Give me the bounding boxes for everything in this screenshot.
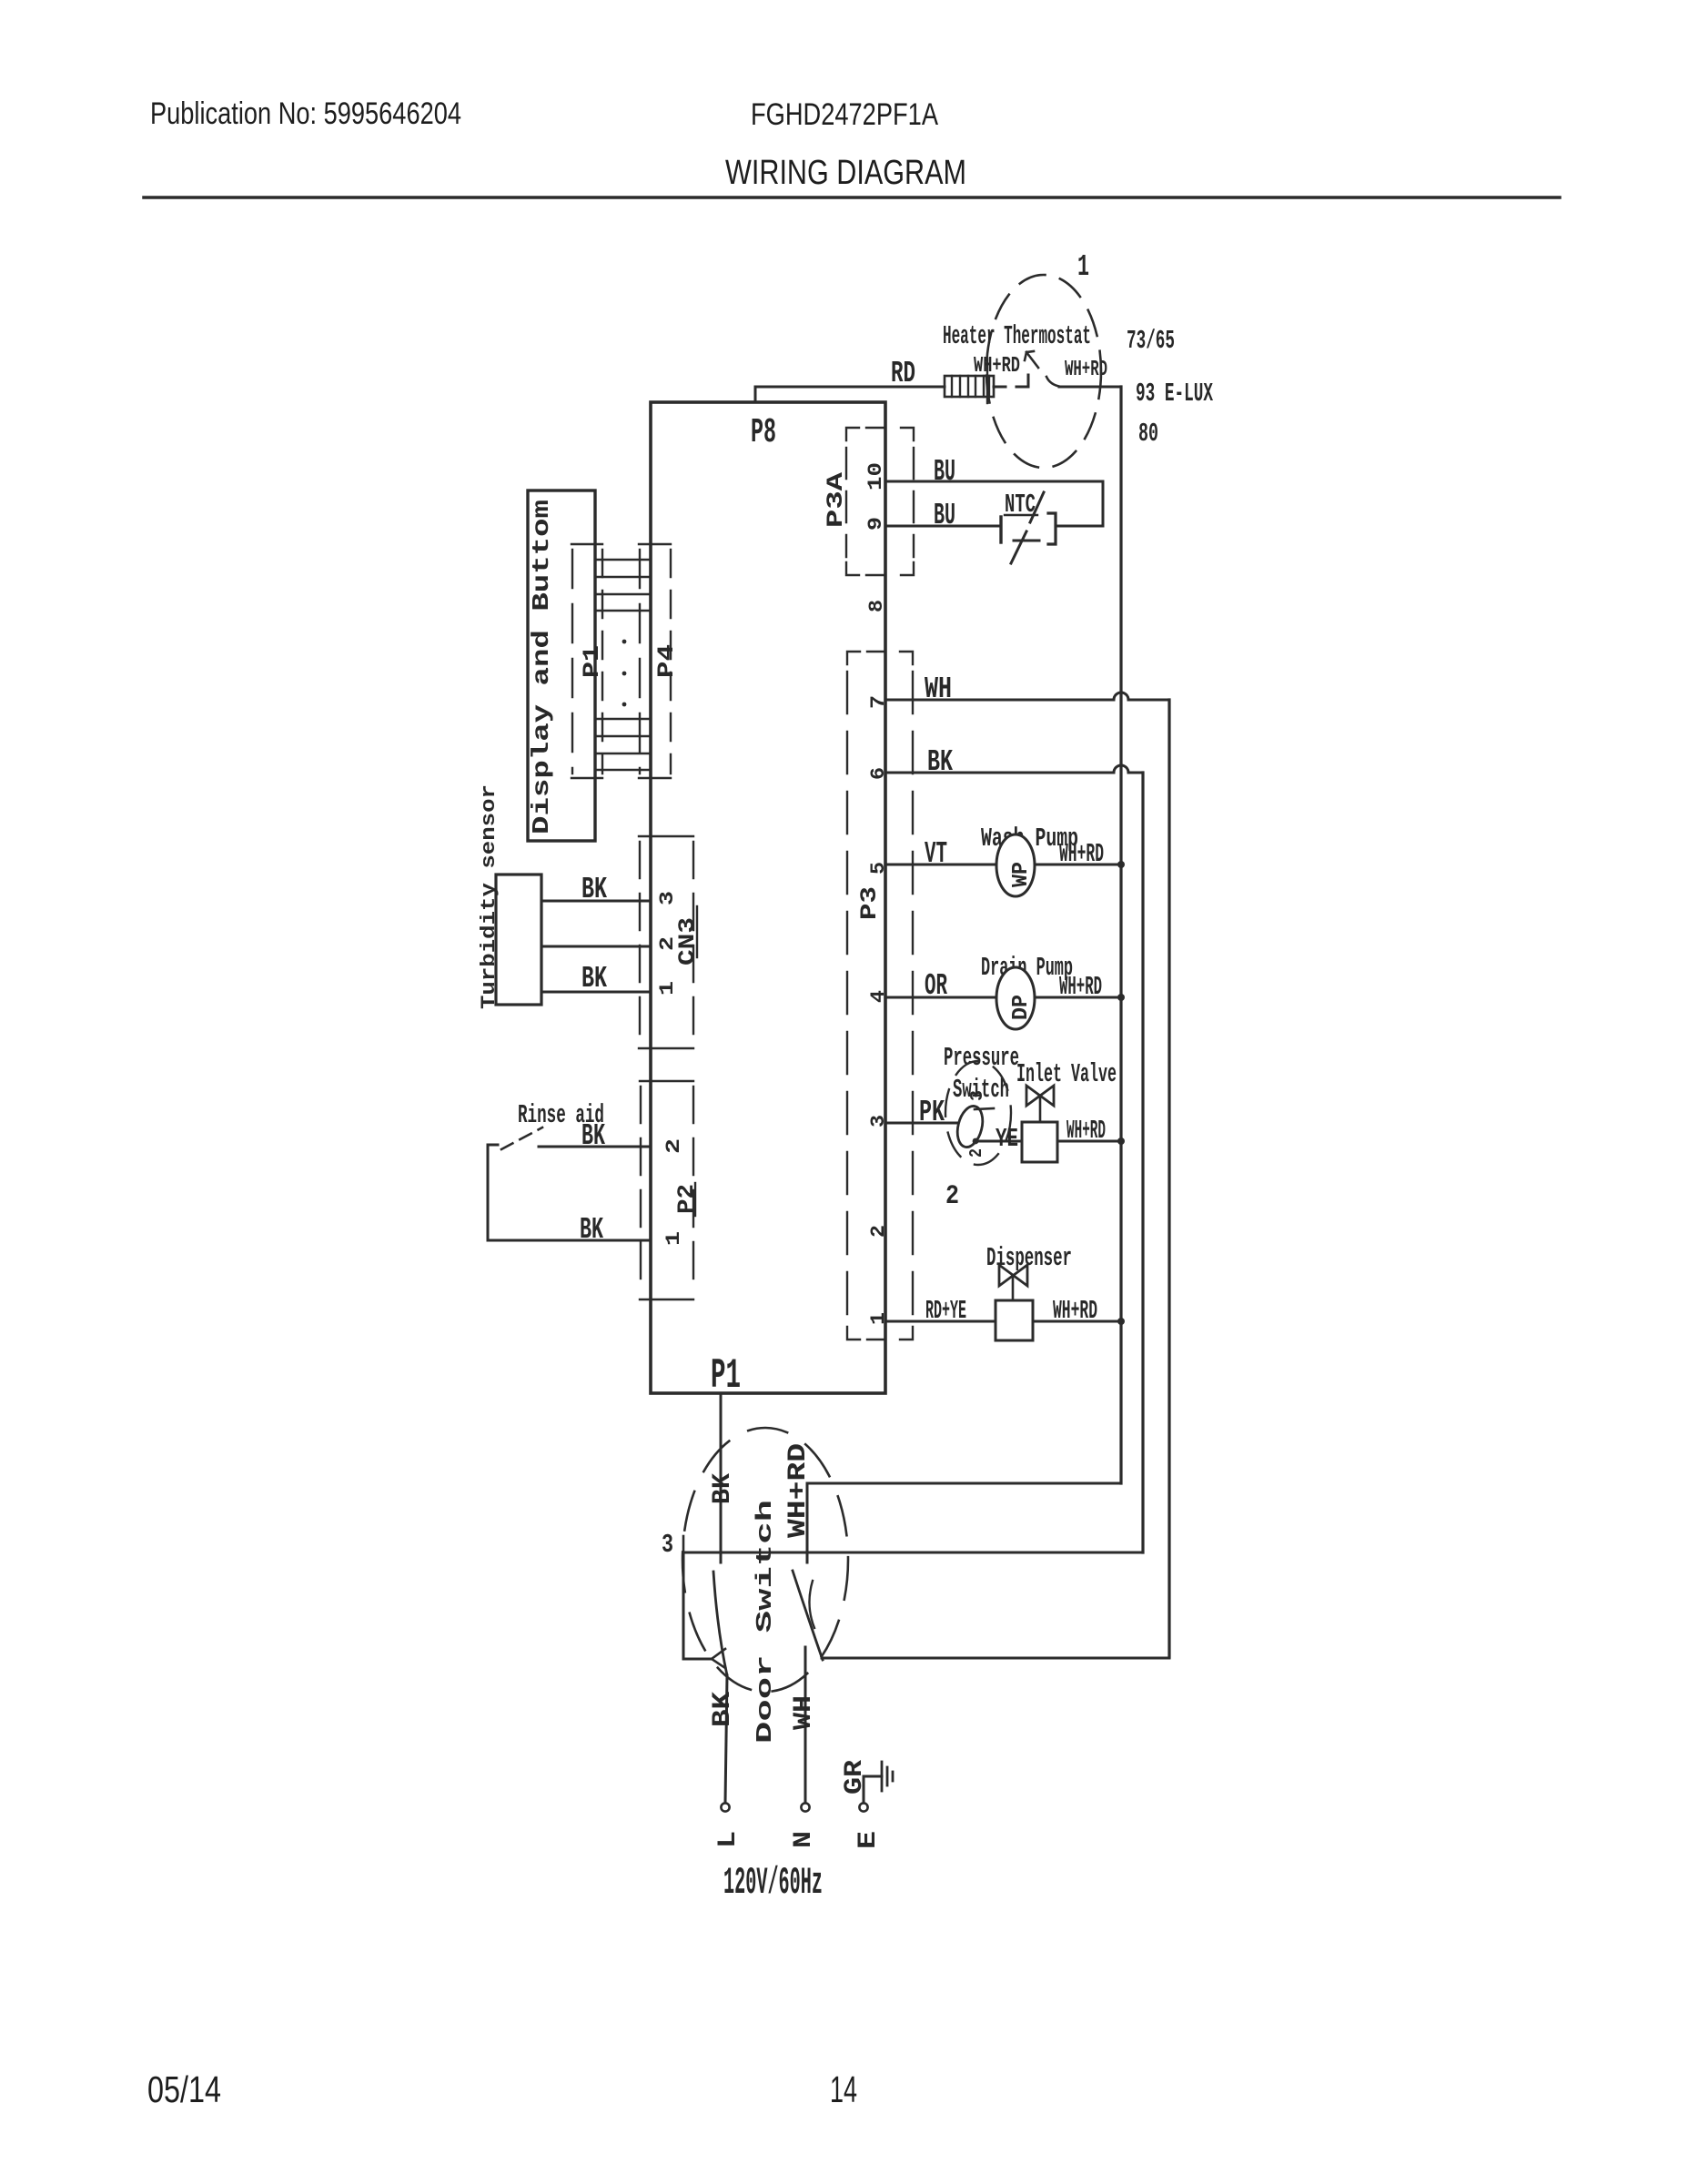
svg-text:Door Switch: Door Switch <box>753 1500 778 1744</box>
svg-text:P3: P3 <box>856 886 883 920</box>
pressure switch dashed circle <box>945 1061 1011 1165</box>
svg-text:2: 2 <box>966 1148 986 1158</box>
svg-text:3: 3 <box>967 1090 987 1101</box>
wash pump motor WP <box>996 834 1035 896</box>
svg-text:WH+RD: WH+RD <box>974 354 1020 379</box>
inlet valve bowtie symbol <box>1026 1086 1054 1106</box>
wire GR ground stub <box>864 1776 882 1803</box>
heater terminal tick <box>986 359 988 403</box>
pressure switch contact ellipse <box>954 1104 986 1150</box>
ribbon wire 7 display to board <box>595 753 651 755</box>
wire BK from board P1 down <box>720 1393 723 1562</box>
svg-text:WH+RD: WH+RD <box>1066 1116 1106 1146</box>
wire RD riser from board top <box>755 387 945 402</box>
svg-text:P4: P4 <box>653 644 680 678</box>
svg-text:BU: BU <box>934 499 955 532</box>
wire PK pin3 <box>885 1122 959 1125</box>
svg-text:WIRING DIAGRAM: WIRING DIAGRAM <box>725 154 966 192</box>
P2 underline <box>694 1183 696 1216</box>
main control board outline <box>651 402 885 1393</box>
svg-text:GR: GR <box>841 1760 869 1795</box>
middle rail BK <box>1141 773 1144 1552</box>
ribbon wire 3 display to board <box>595 593 651 596</box>
svg-text:BK: BK <box>581 873 607 906</box>
P1 pin tick <box>682 1536 685 1558</box>
dispenser coil box <box>996 1300 1033 1340</box>
svg-text:1: 1 <box>867 1312 890 1325</box>
rinse aid switch lever dashes <box>501 1127 542 1149</box>
outer rail WH <box>1167 700 1170 1657</box>
svg-text:1: 1 <box>656 981 679 996</box>
svg-text:BK: BK <box>581 962 607 996</box>
svg-text:VT: VT <box>925 837 947 871</box>
door switch left contact arrow <box>712 1649 725 1668</box>
wire WH pin7 with jump over inner rail <box>885 693 1169 700</box>
svg-text:WH+RD: WH+RD <box>1059 839 1104 869</box>
turbidity sensor box <box>496 875 541 1005</box>
door switch left bracket path <box>683 1552 712 1659</box>
dispenser bowtie symbol <box>999 1265 1027 1286</box>
svg-text:2: 2 <box>662 1138 685 1154</box>
svg-text:P1: P1 <box>579 645 605 678</box>
wire BU pin10 <box>885 480 1103 483</box>
svg-text:WH: WH <box>925 672 952 706</box>
svg-text:WH+RD: WH+RD <box>1053 1296 1097 1326</box>
connector P4 dashed outline <box>639 544 671 778</box>
wire VT pin5 <box>885 864 1121 866</box>
drain pump motor DP <box>996 967 1035 1029</box>
NTC middle dash <box>1014 540 1039 542</box>
wire door switch node line <box>683 1552 1143 1554</box>
svg-text:BK: BK <box>580 1213 603 1247</box>
svg-text:10: 10 <box>864 462 887 490</box>
ribbon wire 4 display to board <box>595 610 651 612</box>
svg-text:BK: BK <box>709 1692 737 1727</box>
ground symbol bars <box>882 1762 893 1791</box>
svg-text:3: 3 <box>867 1115 890 1127</box>
ribbon wire 6 display to board <box>595 735 651 738</box>
svg-text:2: 2 <box>945 1181 959 1212</box>
pressure switch lever <box>975 1108 994 1109</box>
svg-text:P1: P1 <box>711 1352 741 1400</box>
ribbon continuation dots <box>622 640 627 707</box>
svg-text:120V/60Hz: 120V/60Hz <box>723 1861 823 1905</box>
rinse aid return wire to P2 pin1 <box>488 1145 651 1240</box>
wire OR pin4 <box>885 996 1121 999</box>
svg-text:N: N <box>790 1831 818 1848</box>
door switch right contact arc <box>809 1581 814 1628</box>
svg-text:PK: PK <box>919 1096 945 1129</box>
svg-text:2: 2 <box>867 1225 890 1238</box>
dispenser stem <box>1012 1276 1015 1300</box>
svg-text:DP: DP <box>1009 995 1034 1020</box>
NTC right bracket <box>1048 513 1056 544</box>
junction dispenser to inner rail <box>1117 1318 1125 1325</box>
wire BK pin6 with jump over inner rail <box>885 765 1143 773</box>
svg-text:14: 14 <box>830 2068 857 2110</box>
inlet valve coil box <box>1022 1122 1057 1162</box>
connector P1 dashed outline (display side) <box>571 544 602 778</box>
wire WH switch to outer rail <box>822 1657 1169 1660</box>
connector P3 dashed outline <box>847 652 913 1340</box>
svg-text:WH: WH <box>790 1695 818 1730</box>
terminal E circle <box>859 1803 867 1811</box>
NTC strike diagonal lower <box>1011 531 1026 563</box>
junction wash pump to inner rail <box>1117 861 1125 868</box>
svg-text:RD: RD <box>891 357 915 390</box>
svg-text:80: 80 <box>1138 419 1158 449</box>
wire BK rinse aid to P2 pin2 <box>539 1146 651 1148</box>
svg-text:93 E-LUX: 93 E-LUX <box>1136 379 1213 409</box>
svg-text:Publication No: 5995646204: Publication No: 5995646204 <box>150 96 461 131</box>
svg-text:WH+RD: WH+RD <box>1059 972 1102 1002</box>
junction inlet valve to inner rail <box>1117 1137 1125 1145</box>
svg-text:BU: BU <box>934 455 955 489</box>
door switch left blade <box>713 1572 727 1675</box>
connector P3A dashed outline <box>846 428 914 575</box>
svg-text:Pressure: Pressure <box>944 1043 1019 1073</box>
terminal L circle <box>721 1803 729 1811</box>
wire WH to terminal N <box>804 1647 807 1803</box>
wire YE to inlet valve <box>975 1140 1022 1143</box>
wire RD+YE pin1 <box>885 1320 996 1323</box>
svg-text:YE: YE <box>996 1124 1018 1154</box>
svg-text:2: 2 <box>656 936 679 951</box>
svg-text:7: 7 <box>867 695 890 709</box>
svg-text:BK: BK <box>581 1119 605 1153</box>
svg-text:WP: WP <box>1009 862 1034 887</box>
svg-text:05/14: 05/14 <box>147 2068 221 2110</box>
NTC strike diagonal upper <box>1030 492 1044 522</box>
svg-text:FGHD2472PF1A: FGHD2472PF1A <box>751 97 938 132</box>
svg-text:3: 3 <box>656 891 679 905</box>
svg-text:8: 8 <box>865 600 888 612</box>
wire inlet valve to inner rail WH+RD <box>1057 1140 1121 1143</box>
inlet valve stem <box>1039 1096 1042 1122</box>
svg-text:Display and Buttom: Display and Buttom <box>528 500 555 834</box>
thermostat fixed contact <box>1016 375 1028 387</box>
title underline rule <box>144 196 1560 199</box>
thermostat right contact curve <box>1046 377 1061 387</box>
junction drain pump to inner rail <box>1117 994 1125 1001</box>
svg-text:9: 9 <box>864 517 887 531</box>
door switch right blade <box>793 1571 823 1660</box>
wire resistor to thermostat <box>994 386 1006 389</box>
svg-text:3: 3 <box>662 1530 673 1560</box>
svg-text:OR: OR <box>925 969 947 1003</box>
svg-text:Heater Thermostat: Heater Thermostat <box>943 321 1091 351</box>
wire thermostat to right rail <box>1059 386 1120 389</box>
svg-text:RD+YE: RD+YE <box>925 1296 966 1326</box>
ribbon wire 2 display to board <box>595 576 651 579</box>
wire WH+RD branch riser <box>807 1483 1121 1562</box>
wire BK to terminal L <box>725 1675 727 1803</box>
connector CN3 dashed outline <box>639 836 693 1048</box>
svg-text:P3A: P3A <box>823 472 849 528</box>
connector P2 dashed outline <box>640 1081 693 1299</box>
svg-text:1: 1 <box>1077 250 1089 284</box>
CN3 underline <box>696 906 698 957</box>
svg-text:Inlet Valve: Inlet Valve <box>1016 1059 1117 1089</box>
heater resistor element <box>945 376 994 397</box>
ribbon wire 8 display to board <box>595 769 651 772</box>
terminal N circle <box>801 1803 809 1811</box>
display and button board box <box>528 490 595 841</box>
wire BK turbidity pin1 <box>541 991 651 994</box>
ribbon wire 1 display to board <box>595 559 651 561</box>
heater thermostat dashed enclosure <box>986 275 1101 468</box>
wire BU pin9 <box>885 525 1001 528</box>
junction pressure switch YE <box>973 1138 979 1145</box>
svg-text:BK: BK <box>709 1473 737 1504</box>
NTC underline <box>1005 514 1037 516</box>
svg-text:Turbidity sensor: Turbidity sensor <box>478 784 500 1009</box>
svg-text:E: E <box>854 1831 883 1849</box>
svg-text:L: L <box>714 1831 743 1848</box>
wire dispenser to inner rail WH+RD <box>1033 1320 1121 1323</box>
wire BK turbidity pin3 <box>541 900 651 903</box>
door switch dashed circle <box>682 1428 848 1692</box>
thermostat lever arm <box>1025 351 1038 368</box>
wire turbidity pin2 <box>541 945 651 948</box>
inner rail WH+RD <box>1119 387 1122 1483</box>
svg-text:1: 1 <box>662 1231 685 1246</box>
svg-text:BK: BK <box>927 745 953 779</box>
svg-text:P8: P8 <box>751 413 776 452</box>
NTC loop wiring <box>1056 481 1103 526</box>
ribbon wire 5 display to board <box>595 718 651 721</box>
svg-text:73/65: 73/65 <box>1127 326 1175 356</box>
NTC left plate <box>999 517 1002 542</box>
